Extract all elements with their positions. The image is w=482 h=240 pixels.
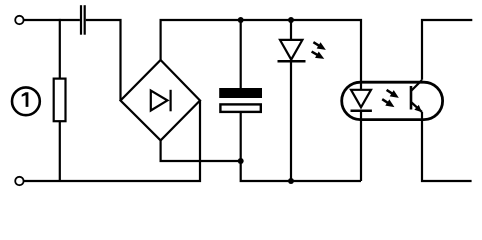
wire: resistor R1 to bottom rail bbox=[59, 121, 61, 181]
wire: capacitor C2 to DC- junction bbox=[240, 113, 242, 161]
junction dot: top rail / capacitor C2 bbox=[238, 17, 244, 23]
junction dot: DC- / capacitor C2 bottom bbox=[238, 158, 244, 164]
wire: bridge DC- (bottom vertex) to junction bbox=[161, 140, 241, 162]
resistor R1 bbox=[54, 79, 66, 122]
wire: bridge DC+ (top vertex) to top rail and optocoupler LED anode bbox=[161, 20, 361, 90]
junction dot: top rail / LED anode bbox=[288, 17, 294, 23]
wire: DC- junction to bottom rail under optocoupler bbox=[241, 161, 361, 181]
optocoupler light arrows bbox=[380, 87, 401, 110]
optocoupler body (stadium outline) bbox=[342, 82, 443, 119]
wire: phototransistor emitter to bottom-right bbox=[422, 112, 472, 181]
node label 1 (circled terminal number) bbox=[12, 87, 40, 115]
terminal top-left bbox=[15, 16, 23, 24]
capacitor C2 (polarized, filled plate + hollow plate) bbox=[219, 88, 262, 112]
wire: phototransistor collector to top-right bbox=[422, 20, 472, 80]
wire: capacitor C1 to bridge AC input (left vertex) bbox=[86, 20, 121, 101]
wire: top rail to LED anode bbox=[290, 20, 292, 41]
capacitor C1 bbox=[81, 5, 85, 35]
wire: bottom-left terminal to bridge AC input (right vertex) bbox=[24, 101, 200, 182]
LED indicator diode bbox=[278, 40, 306, 61]
wire: LED cathode to bottom rail bbox=[290, 61, 292, 181]
terminal bottom-left bbox=[15, 177, 23, 185]
LED emission arrows bbox=[310, 39, 328, 62]
optocoupler phototransistor bbox=[411, 80, 424, 115]
wire: top-left terminal to capacitor C1 bbox=[24, 19, 80, 21]
junction dot: bottom rail / LED cathode bbox=[288, 178, 294, 184]
wire: top rail to resistor R1 bbox=[59, 19, 61, 79]
optocoupler LED bbox=[351, 90, 372, 111]
bridge rectifier (diamond) bbox=[121, 60, 201, 140]
diode symbol inside bridge bbox=[151, 90, 171, 112]
wire: optocoupler LED cathode to bottom rail bbox=[360, 111, 362, 181]
wire: top rail to capacitor C2 bbox=[240, 20, 242, 89]
